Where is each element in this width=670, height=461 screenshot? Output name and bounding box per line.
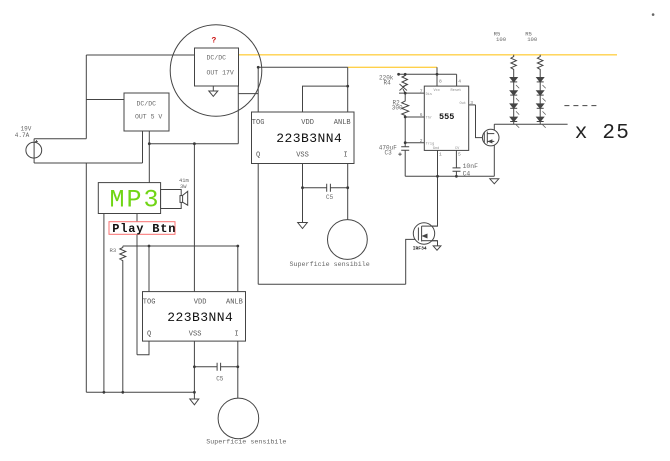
svg-text:IRF34: IRF34 — [413, 245, 427, 251]
wire C5b right — [221, 366, 238, 368]
svg-text:300: 300 — [392, 105, 403, 112]
wire Q1 down — [257, 164, 259, 285]
wire 555 pin6 line — [405, 116, 424, 118]
wire VDD1 jog — [303, 86, 348, 112]
timer U6 555 box — [424, 86, 468, 150]
junction pin2 — [404, 141, 407, 144]
sensor pad circle lower — [218, 398, 259, 439]
resistor R3 — [120, 246, 126, 262]
wire fet2 source to ground — [422, 241, 438, 246]
svg-text:C3: C3 — [385, 150, 393, 157]
power source V1 19V circle — [33, 139, 35, 163]
junction pin7 — [404, 92, 407, 95]
svg-text:Reset: Reset — [451, 89, 462, 93]
svg-text:ANLB: ANLB — [226, 298, 243, 306]
junction pullup ANLB2 — [236, 245, 239, 248]
svg-text:2: 2 — [420, 138, 423, 144]
LED emission arrows — [516, 85, 546, 128]
junction 5V rail VDD2 — [193, 142, 196, 145]
wire DC/DC 5V out right down to MP3 — [148, 131, 150, 183]
svg-text:?: ? — [212, 37, 217, 46]
wire TOG2 stub — [148, 246, 150, 292]
speaker LS1 driver — [180, 196, 183, 203]
wire Q1 across bottom — [258, 283, 406, 285]
svg-text:555: 555 — [439, 112, 454, 122]
wire rail down to fet2 drain — [422, 176, 438, 226]
resistor R2 300 — [402, 93, 409, 117]
svg-text:Superficie sensibile: Superficie sensibile — [290, 261, 370, 269]
svg-text:100: 100 — [527, 36, 538, 43]
wire TOG1 vertical — [257, 67, 259, 112]
junction gnd rail pin1 — [436, 175, 439, 178]
svg-text:223B3NN4: 223B3NN4 — [167, 310, 233, 325]
wire Q2 loop — [137, 341, 149, 355]
wire out down to gate Q1fet — [476, 105, 485, 138]
svg-text:VDD: VDD — [194, 298, 207, 306]
svg-text:DC/DC: DC/DC — [137, 100, 157, 107]
svg-text:8: 8 — [439, 79, 442, 85]
speaker LS1 connector box — [161, 190, 182, 209]
svg-text:6: 6 — [420, 112, 423, 118]
svg-text:x 25: x 25 — [575, 122, 630, 145]
transistor Q2 mosfet circle — [413, 223, 434, 244]
ground under fet2 — [433, 246, 441, 250]
junction 5V rail left — [148, 142, 151, 145]
IC U4 223B3NN4 upper box — [252, 112, 355, 164]
svg-text:7: 7 — [420, 88, 423, 94]
button Play Btn box — [109, 222, 175, 235]
wire VDD1 rail black segment — [258, 66, 348, 68]
highlight circle around DC/DC 17V — [170, 25, 262, 117]
wire 555 ground rail — [405, 175, 494, 177]
wire C3 top stub — [404, 143, 406, 147]
wire ANLB1 vertical — [347, 67, 349, 112]
svg-text:223B3NN4: 223B3NN4 — [276, 131, 342, 146]
svg-text:I: I — [344, 152, 348, 160]
wire up to fet2 gate — [406, 239, 419, 284]
wire left supply column upper — [85, 55, 87, 139]
wire 555 pin4 stub — [456, 74, 458, 86]
wire fet1 source down — [493, 141, 495, 176]
ground under VSS2 — [190, 399, 199, 405]
wire VDD2 long vertical — [193, 144, 195, 292]
svg-text:TOG: TOG — [252, 119, 265, 127]
wire source bottom rail — [34, 162, 142, 164]
junction TOG1 rail — [257, 66, 260, 69]
junction C5b left — [193, 365, 196, 368]
svg-text:TOG: TOG — [143, 298, 156, 306]
svg-text:Q: Q — [256, 152, 260, 160]
svg-text:Out: Out — [460, 102, 466, 106]
svg-text:R4: R4 — [384, 79, 392, 86]
wire VSS2 down — [193, 341, 195, 399]
junction C5b right — [236, 365, 239, 368]
svg-text:MP3: MP3 — [110, 186, 161, 215]
wire I1 down to sensor — [347, 164, 349, 220]
junction lower rail R3 — [121, 391, 124, 394]
svg-text:C5: C5 — [216, 375, 224, 382]
svg-text:C4: C4 — [463, 170, 471, 177]
junction R4 top left — [397, 73, 400, 76]
junction gnd rail C4 — [455, 175, 458, 178]
resistor R4 220k — [402, 74, 408, 86]
svg-text:VSS: VSS — [296, 152, 309, 160]
svg-text:OUT 17V: OUT 17V — [207, 70, 234, 77]
junction ANLB1 jog — [346, 85, 349, 88]
wire C4 bottom stub — [455, 171, 457, 176]
svg-text:Q: Q — [147, 331, 151, 339]
wire 555 pin2 line — [405, 142, 424, 144]
ground under DC/DC 17V — [209, 86, 218, 96]
wire C3 bottom to rail — [404, 150, 406, 176]
sensor pad circle upper — [328, 220, 368, 260]
wire fet1 drain up — [493, 124, 495, 133]
junction pullup TOG2 — [148, 245, 151, 248]
svg-text:Gnd: Gnd — [433, 146, 439, 151]
junction C5a left — [301, 186, 304, 189]
capacitor C5 lower — [217, 363, 221, 371]
resistor R5 string2 — [537, 55, 543, 78]
wire jog to TOG1 column — [238, 93, 258, 95]
stray dot top right — [652, 13, 655, 16]
wire DC/DC 5V out left down — [142, 131, 144, 163]
junction R4 top — [404, 73, 407, 76]
svg-text:4: 4 — [458, 79, 461, 85]
svg-text:C5: C5 — [326, 194, 334, 201]
converter U3 DC/DC OUT 17V box — [195, 48, 239, 86]
wire C5a right — [330, 187, 347, 189]
svg-text:100: 100 — [496, 36, 507, 43]
svg-text:10nF: 10nF — [463, 163, 479, 170]
wire 555 out stub — [469, 104, 476, 106]
speaker LS1 cone — [183, 191, 188, 205]
dashed continuation line — [564, 105, 596, 107]
wire left ground column lower — [85, 163, 87, 392]
net VDD1 yellow segment — [348, 66, 437, 68]
svg-text:R3: R3 — [110, 247, 117, 254]
svg-text:3: 3 — [470, 100, 473, 106]
svg-text:DC/DC: DC/DC — [207, 55, 227, 62]
junction lower rail MP3 — [103, 391, 106, 394]
wire VSS1 down — [302, 164, 304, 223]
wire yellow end stub down — [436, 67, 438, 86]
IC U5 223B3NN4 lower box — [143, 292, 246, 342]
wire C5a left — [303, 187, 327, 189]
junction vcc stub — [436, 73, 439, 76]
svg-text:VSS: VSS — [189, 331, 202, 339]
svg-text:3W: 3W — [180, 184, 187, 190]
converter U2 DC/DC OUT 5V box — [124, 93, 169, 131]
svg-text:Play Btn: Play Btn — [112, 222, 176, 236]
wire MP3 left output down — [103, 214, 105, 393]
svg-text:OUT 5 V: OUT 5 V — [135, 113, 162, 120]
wire R2 to trig column — [404, 117, 406, 143]
svg-text:VDD: VDD — [301, 119, 314, 127]
wire ANLB2 stub — [237, 246, 239, 292]
wire source top to column — [34, 138, 86, 140]
svg-text:ANLB: ANLB — [334, 119, 351, 127]
capacitor C4 10nF — [453, 168, 461, 171]
transistor Q1 mosfet circle — [482, 129, 499, 146]
timer U6 inner pin names — [426, 89, 466, 151]
wire C5b left — [194, 366, 217, 368]
resistor R5 string1 — [511, 55, 517, 78]
wire 555 top rail — [398, 73, 456, 75]
junction pin6 — [404, 116, 407, 119]
wire input to DC/DC 5V — [86, 99, 124, 101]
svg-text:Trig: Trig — [426, 141, 435, 146]
svg-text:5: 5 — [458, 152, 461, 158]
svg-text:Superficie sensibile: Superficie sensibile — [206, 439, 286, 447]
svg-text:1: 1 — [439, 152, 442, 158]
ground right of C4 rail end — [490, 179, 499, 184]
wire input to DC/DC 17V — [86, 54, 194, 56]
LED string2 diodes — [537, 78, 544, 122]
svg-text:Thr: Thr — [426, 116, 432, 121]
svg-text:Vcc: Vcc — [434, 89, 440, 93]
wire 555 pin1 stub — [437, 150, 439, 176]
wire play btn column — [136, 214, 138, 355]
timer U6 pin numbers — [420, 79, 474, 158]
junction lower rail VSS2 — [193, 391, 196, 394]
wire 555 pin7 line — [399, 92, 424, 94]
net 17V yellow rail — [239, 54, 618, 56]
wire LED cathode rail — [494, 123, 567, 125]
wire I2 down to sensor — [237, 341, 239, 398]
wire DC/DC 17V corner down — [237, 86, 239, 144]
junction C5a right — [346, 186, 349, 189]
wire 555 pin5 stub — [455, 150, 457, 167]
ground under VSS1 — [298, 223, 308, 229]
wire pullup rail — [123, 245, 238, 247]
LED string1 diodes — [510, 78, 517, 122]
svg-text:4.7A: 4.7A — [15, 132, 30, 139]
wire R3 lower tail — [122, 262, 124, 392]
capacitor C5 upper — [327, 184, 331, 192]
capacitor C3 470uF — [401, 147, 409, 150]
wire lower ground rail — [86, 391, 194, 393]
wire 5V rail horizontal — [149, 143, 238, 145]
svg-text:Dis: Dis — [426, 92, 432, 97]
MP3 player module box — [98, 183, 160, 214]
svg-text:I: I — [235, 331, 239, 339]
